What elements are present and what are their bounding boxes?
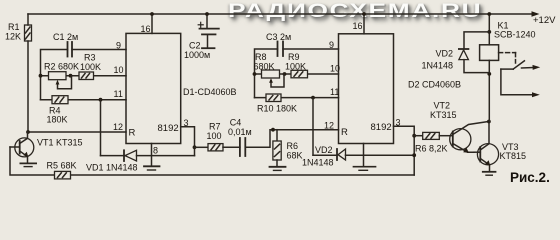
- wire relay contact dashed link: [499, 53, 516, 63]
- label C4 0,01м: [228, 118, 252, 138]
- svg-text:1N4148: 1N4148: [422, 60, 454, 70]
- wire pin3 D2 to right vertical: [394, 126, 415, 175]
- wire pin11 row D1: [41, 99, 127, 101]
- node rail-R2: [39, 74, 43, 78]
- pin label 3: [184, 118, 189, 128]
- wire pin11 row D2: [255, 97, 339, 99]
- svg-text:R8: R8: [255, 52, 267, 62]
- svg-text:KT315: KT315: [430, 110, 457, 120]
- pin label 16: [141, 24, 151, 34]
- svg-text:C4: C4: [230, 118, 242, 128]
- label VT3 KT815: [500, 142, 527, 161]
- label VT1 KT315: [37, 138, 83, 148]
- label R1 12K: [5, 22, 21, 42]
- wire relay branch vertical: [488, 14, 490, 45]
- pin label 10 (D2): [330, 64, 340, 74]
- capacitor C2 1000м: [198, 14, 219, 48]
- wire node to VD1 row: [100, 100, 102, 156]
- resistor R5 68K: [55, 171, 71, 179]
- wire C3 right to pin 9 of D2: [283, 48, 339, 50]
- wire relay bottom: [488, 60, 490, 121]
- svg-text:12: 12: [324, 121, 334, 131]
- wire R6 8,2K row: [414, 135, 423, 137]
- resistor R1: [25, 25, 32, 41]
- label R4 180K: [47, 106, 68, 125]
- label VD2 1N4148 (relay clamp): [422, 49, 454, 71]
- svg-text:R2 680K: R2 680K: [44, 62, 79, 72]
- wire pin16 D1 to bus: [151, 14, 153, 33]
- pin label 10: [114, 65, 124, 75]
- label C1 2м: [53, 32, 78, 42]
- label R6 8,2K: [415, 144, 448, 154]
- label VD1 1N4148: [86, 163, 138, 173]
- label VT2 KT315: [430, 101, 457, 120]
- label R2 680K: [44, 62, 79, 72]
- wire node to VD2 row: [312, 98, 314, 156]
- svg-text:9: 9: [116, 41, 121, 51]
- resistor R10: [266, 94, 281, 102]
- svg-text:10: 10: [330, 64, 340, 74]
- label R7 100: [207, 122, 222, 142]
- wire pin12 D1 row: [28, 131, 126, 133]
- label R5 68K: [47, 161, 77, 171]
- node diode top tee: [487, 30, 491, 34]
- relay contact switch: [501, 61, 525, 69]
- svg-text:KT815: KT815: [500, 151, 527, 161]
- wire pin10 row D1: [41, 75, 127, 77]
- svg-text:0,01м: 0,01м: [228, 127, 252, 137]
- pin label 11 (D2): [330, 87, 339, 97]
- resistor R6 68K (vertical): [273, 130, 281, 167]
- wire R1 top lead: [27, 14, 29, 25]
- node pin16 D1 on bus: [150, 12, 154, 16]
- svg-text:D2 CD4060B: D2 CD4060B: [408, 80, 461, 90]
- node R6 top: [271, 128, 275, 132]
- capacitor C4 0,01м: [240, 138, 245, 156]
- resistor R9: [291, 70, 308, 78]
- svg-text:680K: 680K: [254, 62, 275, 72]
- svg-text:1000м: 1000м: [184, 50, 210, 60]
- wire pin8 D1 to ground: [151, 144, 153, 167]
- svg-text:R3: R3: [84, 53, 96, 63]
- transistor VT1 KT315: [10, 132, 34, 163]
- transistor VT2 KT315: [450, 122, 489, 153]
- ground (VT3 emitter): [483, 172, 496, 175]
- svg-text:8192: 8192: [371, 122, 392, 133]
- resistor R7 100: [208, 144, 223, 151]
- ground (pin 8 D2): [354, 167, 376, 171]
- capacitor C3: [278, 42, 284, 57]
- svg-text:11: 11: [330, 87, 339, 97]
- wire C4 to pin12 D2: [245, 130, 338, 148]
- svg-text:VD2: VD2: [315, 145, 333, 155]
- svg-text:8: 8: [153, 146, 158, 156]
- label D2 CD4060B: [408, 80, 461, 90]
- node pin3/VD1/R7: [193, 145, 197, 149]
- node R8-R9: [283, 72, 287, 76]
- node C2 on bus: [205, 12, 209, 16]
- svg-text:9: 9: [329, 40, 334, 50]
- diode VD2 1N4148 (relay clamp): [459, 32, 489, 73]
- wire pin10 row D2: [255, 73, 339, 75]
- label K1 SCB-1240: [494, 21, 536, 40]
- svg-text:C1 2м: C1 2м: [53, 32, 78, 42]
- label R (reset pin): [129, 128, 136, 139]
- svg-text:R1: R1: [8, 22, 20, 32]
- transistor VT3 KT815: [474, 122, 499, 172]
- ground (VT1 emitter): [20, 163, 36, 166]
- label R9 100K: [285, 52, 306, 72]
- wire R2 wiper: [56, 76, 72, 89]
- relay K1 SCB-1240 coil: [480, 45, 499, 61]
- svg-text:1N4148: 1N4148: [302, 158, 334, 168]
- wire C1 left / oscillator rail (left block): [41, 50, 68, 100]
- svg-text:68K: 68K: [287, 151, 303, 161]
- resistor R4: [52, 96, 68, 104]
- wire pin3 D1 down to R7 node: [181, 127, 195, 156]
- diode VD2 1N4148 (feedback): [313, 149, 414, 160]
- svg-text:R9: R9: [288, 52, 300, 62]
- wire pin8 D2 to ground: [363, 144, 365, 167]
- node VT1 collector: [26, 130, 30, 134]
- resistor R6 8,2K: [423, 132, 440, 139]
- label C2 1000м: [184, 41, 210, 61]
- svg-text:R7: R7: [209, 122, 221, 132]
- node diode bottom tee: [487, 72, 491, 76]
- svg-text:R10 180K: R10 180K: [257, 104, 297, 114]
- pin label 12: [113, 122, 123, 132]
- wire C3 left / oscillator rail (right block): [255, 49, 278, 98]
- node pin11/VD1 branch: [99, 98, 103, 102]
- node R6 8,2K tap: [412, 134, 416, 138]
- wire R1 bottom to VT1 collector node: [27, 41, 29, 132]
- IC D2 CD4060B: [339, 34, 394, 144]
- svg-text:R5 68K: R5 68K: [47, 161, 77, 171]
- svg-text:SCB-1240: SCB-1240: [494, 29, 536, 39]
- svg-text:VT1 KT315: VT1 KT315: [37, 138, 83, 148]
- svg-text:R6 8,2K: R6 8,2K: [415, 144, 448, 154]
- diode VD1 1N4148: [101, 150, 195, 161]
- pin label 16 (D2): [353, 21, 363, 31]
- svg-text:VD2: VD2: [436, 49, 454, 59]
- svg-text:D1-CD4060B: D1-CD4060B: [183, 87, 237, 97]
- node pin16 D2 on bus: [362, 12, 366, 16]
- svg-text:16: 16: [141, 24, 151, 34]
- svg-text:12K: 12K: [5, 32, 21, 42]
- label R3 100K: [80, 53, 101, 73]
- wire R7 to C4: [223, 146, 240, 148]
- resistor R3: [79, 72, 94, 80]
- +12V arrowhead: [532, 11, 540, 16]
- IC D1 CD4060B: [126, 33, 181, 143]
- svg-text:10: 10: [114, 65, 124, 75]
- ground (pin 8 D1): [144, 166, 160, 170]
- label D1-CD4060B: [183, 87, 237, 97]
- wire pin16 D2 to bus: [363, 14, 365, 34]
- label 8192 (D2): [371, 122, 392, 133]
- label R8 680K: [254, 52, 275, 72]
- label Рис.2.: [510, 170, 550, 185]
- svg-text:180K: 180K: [47, 115, 68, 125]
- node VD2 anode: [412, 153, 416, 157]
- capacitor C1: [68, 42, 73, 57]
- wire bottom bus: [10, 147, 414, 175]
- svg-text:12: 12: [113, 122, 123, 132]
- wire R7 row: [195, 146, 209, 148]
- node VT2 collector junction: [487, 120, 491, 124]
- node pin11/VD2 branch: [311, 96, 315, 100]
- wire top +12V bus: [28, 13, 536, 15]
- wire contact common down and output arrow 2: [501, 69, 540, 97]
- svg-text:R6: R6: [287, 141, 299, 151]
- label R (reset pin D2): [341, 127, 348, 138]
- svg-text:R: R: [341, 127, 348, 138]
- label 8192: [158, 123, 179, 134]
- pin label 9 (D2): [329, 40, 334, 50]
- svg-text:16: 16: [353, 21, 363, 31]
- node R2-R3: [69, 74, 73, 78]
- pin label 3 (D2): [396, 118, 401, 128]
- label R6 68K: [287, 141, 303, 161]
- svg-text:100: 100: [207, 131, 222, 141]
- label C3 2м: [266, 32, 291, 42]
- pin label 11: [114, 89, 123, 99]
- svg-text:C2: C2: [189, 41, 201, 51]
- svg-text:C3 2м: C3 2м: [266, 32, 291, 42]
- wire R8 wiper: [269, 74, 284, 87]
- label VD2 1N4148 (feedback): [302, 145, 334, 168]
- svg-text:8192: 8192: [158, 123, 179, 134]
- svg-text:R: R: [129, 128, 136, 139]
- node rail-R8: [253, 72, 257, 76]
- wire R6 8,2K to VT2 base: [439, 135, 453, 137]
- wire C1 right to pin 9 of D1: [72, 49, 126, 51]
- svg-text:+12V: +12V: [533, 15, 556, 26]
- svg-text:Рис.2.: Рис.2.: [510, 170, 550, 185]
- watermark РАДИОСХЕМА.RU: [228, 1, 482, 23]
- svg-text:VD1 1N4148: VD1 1N4148: [86, 163, 138, 173]
- svg-text:100K: 100K: [285, 62, 306, 72]
- pin label 12 (D2): [324, 121, 334, 131]
- label R10 180K: [257, 104, 297, 114]
- resistor R8 (variable): [262, 70, 280, 78]
- label +12V: [533, 15, 556, 26]
- wire contact output arrow 1: [522, 65, 541, 70]
- pin label 9: [116, 41, 121, 51]
- resistor R2 (variable): [49, 72, 67, 80]
- node relay on bus: [487, 12, 491, 16]
- ground (R6 68K): [270, 167, 286, 171]
- svg-text:100K: 100K: [80, 62, 101, 72]
- pin label 8: [153, 146, 158, 156]
- svg-text:11: 11: [114, 89, 123, 99]
